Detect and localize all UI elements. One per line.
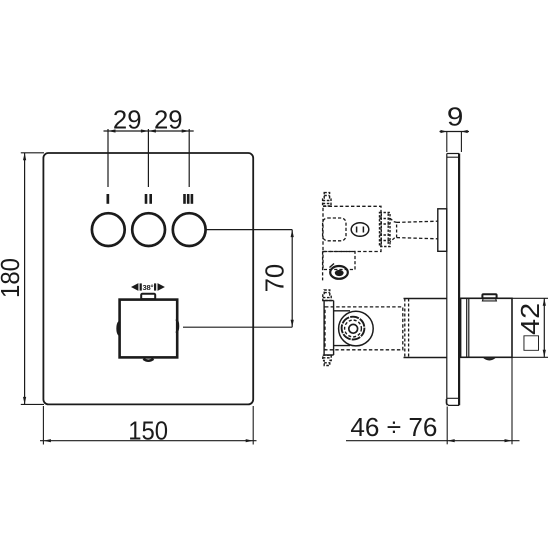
upper valve: port center: [335, 270, 344, 276]
lower valve: through-wall cylinder: [404, 299, 447, 358]
upper valve: mounting screw top: [323, 193, 331, 206]
lower valve: cartridge ring (hidden): [345, 320, 362, 337]
svg-text:180: 180: [0, 258, 25, 298]
square handle button: [120, 300, 178, 358]
square handle top tab: [141, 294, 155, 299]
arrowheads square-42: [543, 298, 546, 357]
knob circle III: [173, 213, 206, 246]
upper valve: port ring: [330, 266, 348, 279]
arrowheads 9 (outside): [441, 130, 468, 133]
upper valve: main body (hidden): [323, 206, 381, 251]
svg-text:42: 42: [515, 303, 545, 335]
dimension 9: extension lines: [447, 132, 462, 153]
svg-text:46 ÷ 76: 46 ÷ 76: [350, 412, 437, 442]
upper valve: lower port housing (hidden): [323, 252, 355, 270]
wall plate (side): [446, 154, 459, 406]
38-degree icon right arrow: [154, 283, 165, 291]
square handle bottom tab: [143, 359, 153, 361]
handle top button base: [482, 299, 496, 301]
knob circle I: [92, 213, 125, 246]
upper valve: cartridge dome (hidden): [323, 218, 346, 241]
dimension 150: dimension line: [40, 440, 257, 442]
svg-text:70: 70: [260, 264, 290, 293]
tick mark I: [107, 194, 110, 204]
svg-text:9: 9: [447, 101, 464, 131]
square handle right notch: [176, 319, 178, 333]
dimension 180: extension lines: [21, 153, 44, 405]
upper valve: port housing corner line: [330, 264, 335, 268]
dimension 150: extension lines: [43, 406, 253, 445]
leader line to knob II: [147, 129, 149, 187]
dimension 9: dimension line: [440, 131, 470, 133]
dimension 46-76: extension lines: [447, 357, 512, 444]
handle block (outside wall): [461, 298, 512, 357]
leader from knob III to 70-dim: [207, 229, 293, 231]
arrowheads 150: [43, 439, 253, 442]
upper valve: oval boss slots: [357, 227, 364, 233]
svg-text:150: 150: [128, 415, 168, 445]
knob circle II: [132, 213, 165, 246]
upper valve: cone adapter: [390, 218, 397, 241]
dimension 46-76: dimension line: [346, 440, 520, 442]
upper valve: wall flange: [438, 209, 447, 252]
arrowheads 180: [23, 153, 26, 405]
dimension square-42: extension lines: [512, 298, 548, 357]
lower valve: adjuster wavy ring: [342, 317, 365, 340]
dimension square-42: dimension line: [543, 298, 545, 357]
handle top button: [482, 294, 496, 298]
lower valve: mounting screw top: [323, 290, 331, 301]
upper valve: oval boss: [351, 223, 369, 237]
38-degree icon left arrow: [131, 283, 142, 291]
lower valve: body (hidden): [325, 307, 403, 350]
dimension 180: dimension line: [24, 153, 26, 405]
svg-text:29: 29: [113, 104, 142, 134]
svg-text:□: □: [515, 335, 545, 351]
upper valve: left housing edge (hidden): [322, 252, 324, 281]
lower valve: cylinder hidden end: [405, 299, 409, 358]
tick mark II: [145, 194, 152, 204]
arrowheads 29/29: [108, 129, 189, 132]
svg-text:38°: 38°: [142, 283, 153, 292]
dimension 70: dimension line: [291, 230, 293, 328]
upper valve: shaft (hidden): [397, 221, 438, 239]
handle bottom dome: [483, 357, 496, 360]
square handle left notch: [117, 322, 119, 335]
tick mark III: [183, 194, 193, 204]
leader from square handle to 70-dim: [183, 326, 292, 328]
leader line to knob I: [107, 129, 109, 187]
lower valve: screw center: [349, 324, 358, 333]
leader line to knob III: [188, 129, 190, 187]
dimension line 29/29: [104, 130, 194, 132]
lower valve: bracket: [324, 301, 350, 355]
panel plate front view: [43, 153, 253, 404]
handle escutcheon lines: [467, 298, 469, 357]
lower valve: mounting screw bottom: [323, 355, 331, 365]
svg-text:29: 29: [154, 104, 183, 134]
lower valve: cartridge cap outer: [339, 311, 374, 346]
arrowheads 46-76: [447, 439, 512, 442]
arrowheads 70: [291, 230, 294, 328]
upper valve: threaded column: [380, 213, 391, 247]
